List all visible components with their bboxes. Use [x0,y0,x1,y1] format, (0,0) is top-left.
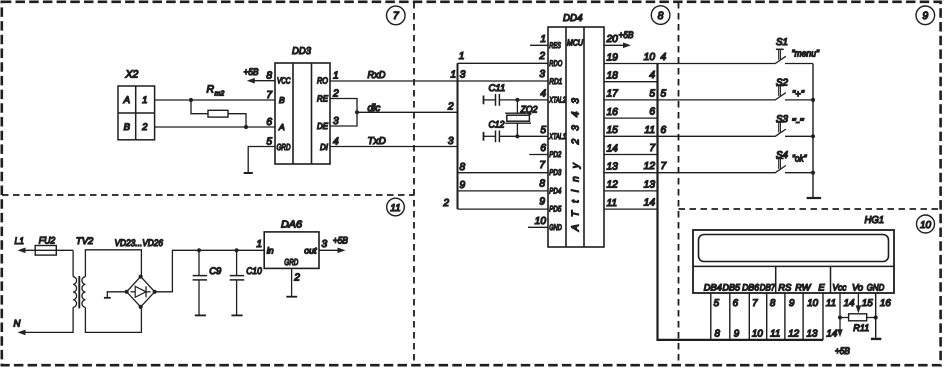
svg-text:RD1: RD1 [549,77,562,86]
svg-text:in: in [267,245,274,255]
fuse FU2 [35,236,56,256]
svg-text:9: 9 [539,197,545,208]
ground at C12 [483,132,485,141]
svg-text:1: 1 [333,71,339,82]
svg-text:6: 6 [661,125,667,136]
svg-text:+5B: +5B [619,30,635,41]
svg-text:FU2: FU2 [39,236,56,247]
svg-text:"menu": "menu" [792,49,820,60]
svg-text:16: 16 [607,107,619,118]
wire junction down to Rm2 [191,100,208,114]
svg-text:4: 4 [540,89,546,100]
wire DD4 pin 12 to harness [604,190,658,192]
svg-text:12: 12 [644,161,656,172]
svg-text:DE: DE [317,121,328,131]
wire RxD : DD3.RO to DD4 pin 3 [330,80,548,82]
svg-text:RE: RE [317,94,328,104]
wire DD4 pin 18 to harness [604,81,658,83]
svg-text:C12: C12 [489,119,506,130]
svg-text:RDO: RDO [549,59,562,68]
display HG1 [693,215,894,293]
svg-text:DD4: DD4 [563,13,583,24]
svg-text:13: 13 [644,179,656,190]
svg-text:7: 7 [752,298,758,309]
wire DD4 pin 19 to S1 [604,63,776,65]
svg-text:8: 8 [460,162,466,173]
wire HG1 DB5 to rail [729,293,731,340]
svg-text:8: 8 [539,178,545,189]
wire DD3 pin 5 to ground [248,147,275,173]
svg-text:20: 20 [606,34,619,45]
node: Rm2 top tap [189,98,193,102]
wire HG1 Vcc to +5B arrow [835,293,851,357]
svg-text:11: 11 [607,198,618,209]
svg-text:8: 8 [715,328,721,339]
wire harness to DD4 pin 9 [458,208,549,210]
svg-text:"ok": "ok" [792,154,807,165]
dashed divider between zone 7 and zone 11 (horizontal) [2,194,414,196]
dashed divider between zone 8 and zones 9/10 (vertical) [678,2,680,365]
wire S1 to button bus [785,63,813,65]
svg-text:PD5: PD5 [549,205,561,214]
svg-text:C9: C9 [209,266,222,277]
svg-text:DB6: DB6 [742,283,760,293]
svg-text:3: 3 [322,239,328,250]
wire C12 to DD4 pin 5 (XTAL1) [484,135,548,137]
svg-text:GRD: GRD [277,142,291,152]
wire bridge minus to ground [107,292,126,298]
wire harness to DD4 pin 7 [458,172,549,174]
ground at bridge [104,297,111,299]
wire Rm2 to lower net [228,114,246,127]
node R11 / GND wire [874,315,878,319]
svg-text:+5B: +5B [835,346,851,357]
svg-text:VCC: VCC [277,76,291,86]
wire bridge plus to DA6 input rail [155,250,265,291]
wire HG1 GND to ground [875,293,877,338]
crystal ZQ2 [505,100,538,136]
svg-text:5: 5 [649,88,655,99]
node Vcc / R11 [838,315,842,319]
node bridge bottom [139,305,143,309]
button S1 "menu" [775,37,819,64]
zone label circle 7 [387,6,406,25]
wire DD3.RE to dic node [330,99,357,113]
svg-text:B: B [124,122,131,133]
wire C11 to DD4 pin 4 (XTAL2) [484,99,548,101]
wire HG1 DB6 to rail [748,293,750,340]
svg-text:13: 13 [607,162,619,173]
svg-text:10: 10 [807,298,818,309]
svg-text:+5B: +5B [244,67,260,78]
svg-text:A: A [123,95,130,106]
svg-text:18: 18 [607,71,619,82]
ground at DD3 pin 5 [244,172,253,174]
wire HG1 RW to rail [802,293,804,340]
svg-text:+5B: +5B [333,236,349,247]
svg-text:9: 9 [789,298,795,309]
ground at C9 [195,314,206,316]
svg-text:GND: GND [867,283,885,293]
wire +5B arrow to DD3 pin 8 [244,67,276,83]
svg-text:17: 17 [607,89,619,100]
wire TxD : DD3.DI to harness [330,146,458,148]
svg-text:13: 13 [807,328,818,339]
svg-text:XTAL2: XTAL2 [549,95,566,104]
svg-text:11: 11 [644,125,655,136]
svg-text:RES: RES [549,41,561,50]
svg-text:15: 15 [607,125,619,136]
node C9 tap [197,248,201,252]
svg-text:14: 14 [607,143,619,154]
svg-text:5: 5 [714,298,720,309]
svg-text:10: 10 [920,220,932,231]
svg-text:PD3: PD3 [549,168,561,177]
button common bus wire [812,64,814,198]
svg-text:1: 1 [256,239,262,250]
harness bus right of DD4 down to HG1 rail [658,64,824,340]
node bridge left [125,290,129,294]
svg-text:11: 11 [390,203,400,214]
resistor Rm2 [207,84,229,118]
ground at HG1 GND [871,338,881,340]
svg-text:"-": "-" [792,117,805,128]
svg-text:6: 6 [733,298,739,309]
potentiometer R11 [840,314,876,334]
svg-text:7: 7 [539,160,545,171]
zone label circle 10 [917,215,935,233]
svg-text:1: 1 [142,95,147,106]
svg-text:3: 3 [448,136,454,147]
svg-text:2: 2 [293,273,300,284]
wire TV2 primary to N arrow [14,307,74,335]
wire X2.2 to DD3 pin 6 [155,126,275,128]
rectifier bridge VD23...VD26 [115,238,164,307]
node XTAL2 / ZQ2 [515,98,519,102]
node bridge right [153,290,157,294]
svg-text:4: 4 [649,70,655,81]
wire X2.1 to DD3 pin 7 [155,99,275,101]
svg-text:E: E [818,283,825,293]
svg-text:VD23...VD26: VD23...VD26 [115,238,164,249]
wire harness to DD4 pin 8 [458,190,549,192]
wire DD4 pin 17 to S2 [604,99,776,101]
wire S3 to button bus [785,135,813,137]
svg-text:6: 6 [540,143,546,154]
svg-text:9: 9 [922,10,928,22]
svg-text:DB5: DB5 [723,283,741,293]
capacitor C12 [489,119,506,142]
svg-text:7: 7 [266,90,272,101]
button S2 "+" [775,77,804,100]
svg-text:7: 7 [661,161,667,172]
svg-text:S3: S3 [776,114,789,125]
capacitor C11 [489,83,506,106]
svg-text:7: 7 [649,143,655,154]
harness bus left of DD4 [457,63,459,209]
svg-text:DB4: DB4 [704,283,722,293]
svg-text:A: A [278,122,285,132]
node S4/bus [811,171,815,175]
wire DD4 pin 15 to S3 [604,135,776,137]
svg-text:DI: DI [320,142,328,152]
wire DD4 pin 16 to harness [604,117,658,119]
wire S2 to button bus [785,99,813,101]
svg-text:N: N [14,319,21,330]
svg-text:5: 5 [540,125,546,136]
wire DD4 pin 13 to S4 [604,172,776,174]
svg-text:C11: C11 [489,83,506,94]
svg-text:DA6: DA6 [281,220,302,231]
wire L1 arrow to fuse [18,248,74,254]
svg-text:3: 3 [539,69,545,80]
wire DD3.DE to dic node [330,112,357,126]
svg-text:1: 1 [459,51,465,62]
svg-text:1: 1 [540,34,546,45]
svg-text:DD3: DD3 [292,46,311,57]
svg-text:6: 6 [649,107,655,118]
svg-text:S2: S2 [776,77,789,88]
svg-text:ATtiny 2343: ATtiny 2343 [571,98,582,232]
zone label circle 11 [387,198,405,216]
svg-text:14: 14 [644,198,656,209]
svg-text:RO: RO [317,76,328,86]
svg-text:10: 10 [535,216,547,227]
zone label circle 8 [651,6,670,25]
wire DA6 GRD to ground [291,268,293,296]
svg-text:RxD: RxD [368,70,386,81]
svg-text:2: 2 [538,51,545,62]
svg-text:2: 2 [141,122,148,133]
svg-text:PD4: PD4 [549,186,561,195]
svg-text:PD2: PD2 [549,150,561,159]
wire DD4 pin 11 to harness [604,208,658,210]
transceiver DD3 [275,46,330,164]
svg-text:XTAL1: XTAL1 [549,132,566,141]
wire DD4 pin 14 to harness [604,154,658,156]
svg-text:16: 16 [880,298,891,309]
node bridge top [139,275,143,279]
wire TV2 secondary top to bridge [85,250,141,277]
svg-text:Vo: Vo [852,283,863,293]
svg-text:14: 14 [844,298,855,309]
svg-text:X2: X2 [125,69,139,81]
wire HG1 RS to rail [784,293,786,340]
ground at C11 [483,96,485,105]
svg-text:B: B [279,95,285,105]
svg-text:RW: RW [795,283,812,293]
dashed divider between zone 9 and zone 10 (horizontal) [679,208,942,210]
svg-text:8: 8 [658,10,664,22]
svg-text:4: 4 [661,52,667,63]
svg-text:Vcc: Vcc [832,283,846,293]
svg-text:DB7: DB7 [760,283,776,293]
ground at C10 [231,314,242,316]
svg-text:15: 15 [862,298,873,309]
svg-text:GND: GND [549,223,562,232]
svg-text:12: 12 [607,180,619,191]
svg-text:TV2: TV2 [76,236,94,247]
button S4 "ok" [775,150,807,173]
zone label circle 9 [916,6,935,25]
node S3/bus [811,134,815,138]
svg-text:10: 10 [752,328,763,339]
svg-text:5: 5 [661,88,667,99]
capacitor C10 [230,250,263,314]
transformer TV2 [73,236,94,308]
wire DA6 out +5B arrow [319,236,348,254]
svg-text:11: 11 [770,328,780,339]
capacitor C9 [193,250,222,314]
node RE/DE junction [355,110,359,114]
node S2/bus [811,98,815,102]
svg-text:1: 1 [450,70,456,81]
svg-text:19: 19 [607,52,619,63]
svg-text:RS: RS [778,283,792,293]
pin 10 stub DD4 (GND) [528,226,548,228]
ground at button bus [807,197,822,199]
svg-text:GRD: GRD [284,257,298,267]
node: Rm2 bottom tap [244,125,248,129]
wire TV2 secondary bottom to bridge [85,307,141,333]
svg-text:out: out [304,245,317,255]
svg-text:3: 3 [460,70,466,81]
svg-text:9: 9 [734,328,740,339]
button S3 "-" [775,114,804,137]
wire HG1 Vo to R11 wiper arrow [856,293,862,313]
wire HG1 DB4 to rail [710,293,712,340]
svg-text:m2: m2 [215,91,225,98]
wire S4 to button bus [785,172,813,174]
svg-text:6: 6 [266,117,272,128]
svg-text:14: 14 [826,328,837,339]
wire fuse to TV2 primary [72,250,74,276]
wire harness to DD4 pin 2 [458,62,549,64]
microcontroller DD4 [548,13,604,247]
ground at DA6 [286,296,297,298]
svg-text:10: 10 [644,52,656,63]
wire HG1 E to rail [822,293,824,340]
svg-text:R11: R11 [853,323,869,334]
wire dic to harness [357,111,458,113]
svg-text:dic: dic [368,103,381,114]
pin 1 stub DD4 (RES) [530,44,548,46]
node XTAL1 / ZQ2 [515,134,519,138]
wire +5B arrow at DD4 pin 20 [604,30,634,48]
svg-text:12: 12 [788,328,799,339]
svg-text:2: 2 [442,198,449,209]
svg-text:8: 8 [770,298,776,309]
svg-text:S1: S1 [776,37,788,48]
svg-text:R: R [207,84,215,96]
svg-text:9: 9 [460,180,466,191]
dashed divider between zone 7/8 and zone 11 (vertical) [413,2,415,365]
svg-text:2: 2 [447,102,454,113]
pin 6 stub DD4 (PD2) [529,154,548,156]
connector X2 [118,69,155,140]
svg-text:L1: L1 [15,236,25,247]
wire HG1 DB7 to rail [766,293,768,340]
svg-text:S4: S4 [776,150,789,161]
svg-text:MCU: MCU [567,38,584,48]
node C10 tap [235,248,239,252]
svg-text:ZQ2: ZQ2 [520,104,539,115]
svg-text:"+": "+" [792,89,805,100]
regulator DA6 [264,220,319,269]
svg-text:8: 8 [266,71,272,82]
svg-text:HG1: HG1 [865,215,885,226]
svg-text:11: 11 [826,298,836,309]
svg-text:TxD: TxD [368,136,386,147]
svg-text:C10: C10 [246,266,262,277]
